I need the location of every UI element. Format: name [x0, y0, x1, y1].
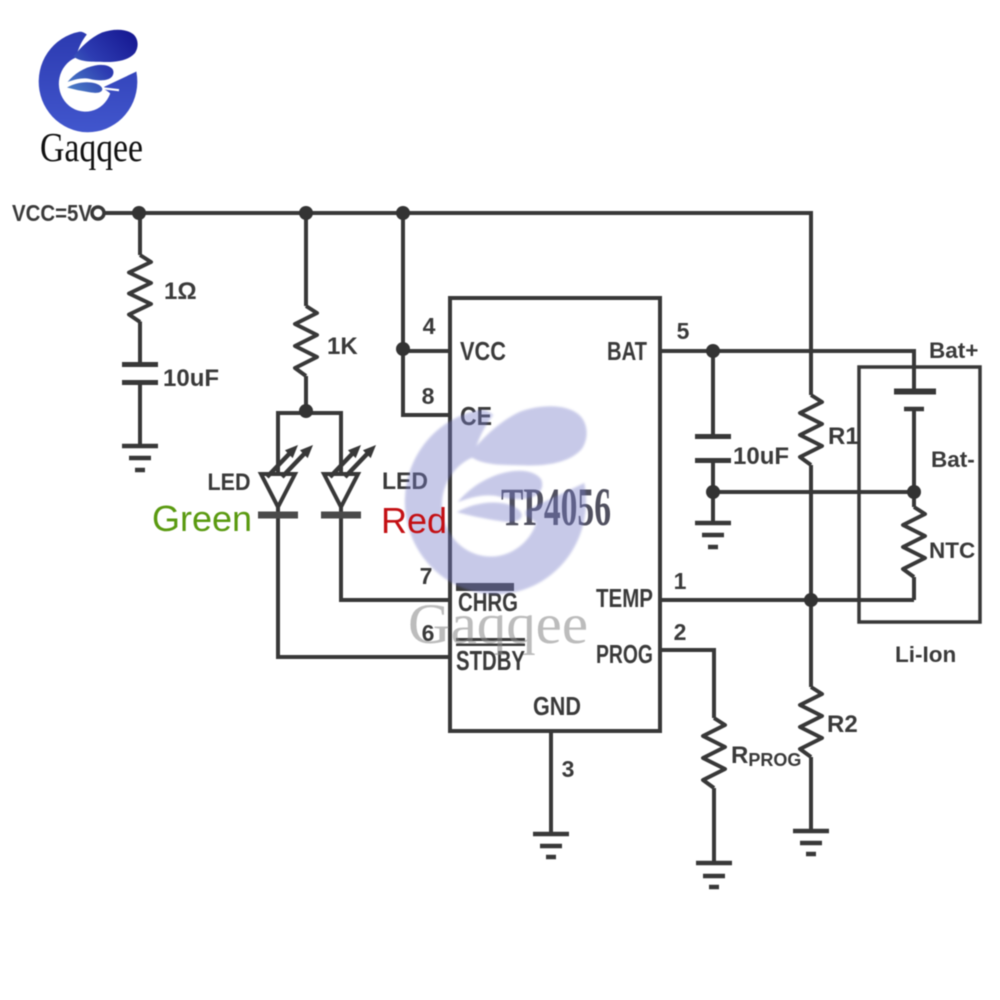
svg-text:BAT: BAT	[607, 336, 647, 366]
svg-text:5: 5	[677, 318, 690, 344]
svg-text:1Ω: 1Ω	[164, 278, 197, 305]
svg-text:8: 8	[422, 383, 435, 409]
svg-text:RPROG: RPROG	[731, 742, 801, 770]
svg-text:Green: Green	[152, 498, 252, 539]
svg-text:VCC=5V: VCC=5V	[12, 200, 93, 226]
svg-text:R2: R2	[827, 711, 858, 738]
svg-text:GND: GND	[533, 691, 581, 721]
svg-text:7: 7	[420, 563, 433, 589]
svg-text:3: 3	[562, 756, 575, 782]
svg-text:NTC: NTC	[929, 538, 975, 563]
svg-text:Bat-: Bat-	[931, 447, 975, 472]
svg-text:Li-Ion: Li-Ion	[895, 642, 956, 667]
svg-text:Bat+: Bat+	[929, 338, 978, 363]
svg-text:1K: 1K	[327, 333, 358, 360]
svg-text:Gaqqee: Gaqqee	[408, 593, 588, 656]
svg-text:4: 4	[423, 313, 436, 339]
svg-text:TEMP: TEMP	[596, 583, 653, 613]
svg-text:VCC: VCC	[460, 336, 506, 366]
svg-text:10uF: 10uF	[163, 365, 219, 392]
svg-text:R1: R1	[828, 423, 859, 450]
svg-text:Red: Red	[381, 500, 447, 541]
svg-text:PROG: PROG	[596, 639, 653, 669]
svg-text:LED: LED	[208, 469, 251, 496]
svg-text:1: 1	[674, 568, 687, 594]
svg-text:10uF: 10uF	[733, 443, 789, 470]
svg-text:2: 2	[674, 619, 687, 645]
svg-text:Gaqqee: Gaqqee	[40, 124, 143, 170]
